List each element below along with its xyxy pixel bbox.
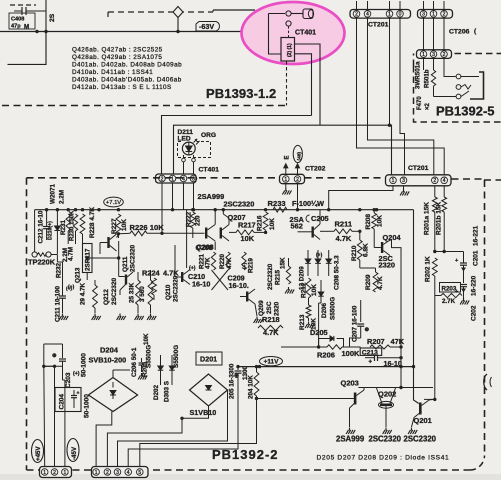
- node diamond junction: [173, 7, 183, 18]
- wire cross link: [87, 257, 119, 259]
- resistor R201a 15K: [434, 186, 436, 197]
- highlight ellipse around CT401: [242, 2, 345, 64]
- wire cross-coupling X: [212, 270, 229, 290]
- wire bridge1 bottom out: [96, 412, 112, 467]
- wire CT401 pin3 drop: [193, 183, 195, 210]
- svg-text:R205: R205: [142, 361, 149, 377]
- diode D207: [305, 259, 311, 263]
- svg-text:F470: F470: [417, 96, 423, 110]
- svg-text:CT201: CT201: [408, 165, 429, 172]
- svg-text:D210(+): D210(+): [48, 221, 54, 240]
- svg-text:1: 1: [64, 470, 67, 476]
- svg-text:Q201: Q201: [414, 416, 432, 425]
- board border PB1392-2 top right: [452, 178, 486, 180]
- wire CT201 top stubs: [356, 1, 358, 10]
- svg-text:2320: 2320: [274, 301, 281, 316]
- svg-text:W2071: W2071: [50, 184, 57, 204]
- svg-text:1: 1: [422, 52, 425, 58]
- wire supply horizontal: [44, 365, 63, 367]
- svg-text:16-220: 16-220: [471, 275, 478, 296]
- connector CT202: [280, 174, 305, 183]
- svg-text:R217: R217: [238, 221, 256, 230]
- svg-text:(+): (+): [316, 253, 323, 259]
- capacitor C202: [460, 284, 467, 286]
- svg-text:1: 1: [388, 12, 391, 18]
- svg-text:3: 3: [402, 178, 405, 184]
- svg-text:S5500G: S5500G: [330, 297, 337, 320]
- wire D210 to C211: [57, 255, 62, 281]
- wire CT201 pin2 down: [357, 18, 445, 175]
- svg-text:0: 0: [399, 12, 402, 18]
- svg-text:(+): (+): [68, 285, 75, 291]
- svg-text:SVB10-200: SVB10-200: [89, 356, 127, 365]
- wire +11V rail: [238, 366, 414, 368]
- switch S501 contact 3: [456, 94, 461, 99]
- svg-text:47K: 47K: [391, 337, 405, 346]
- svg-text:4.7M: 4.7M: [68, 247, 75, 261]
- svg-text:4: 4: [127, 470, 130, 476]
- board border PB1392-2 top mid: [305, 177, 386, 179]
- trimmer TP220K: [32, 252, 37, 257]
- svg-text:2320: 2320: [379, 261, 395, 270]
- svg-text:50-1000: 50-1000: [81, 353, 88, 377]
- wire pin5 route: [140, 399, 257, 467]
- svg-text:(+): (+): [189, 266, 196, 272]
- svg-text:2: 2: [443, 52, 446, 58]
- svg-text:Q209: Q209: [258, 300, 265, 316]
- svg-text:C208: C208: [197, 243, 214, 252]
- svg-text:⊕: ⊕: [365, 327, 370, 333]
- svg-text:Q428ab. Q429ab : 2SA1075: Q428ab. Q429ab : 2SA1075: [72, 54, 162, 61]
- wire relay feed right pin: [295, 54, 312, 116]
- svg-text:PB1393-1.2: PB1393-1.2: [206, 86, 276, 101]
- svg-text:10K: 10K: [143, 333, 150, 345]
- wire top rail right of diamond: [213, 9, 255, 11]
- ground under R229: [92, 314, 101, 321]
- diode D209 pair: [326, 259, 332, 263]
- wire switch feed: [444, 58, 456, 76]
- svg-text:-45V: -45V: [71, 446, 78, 460]
- svg-text:C202: C202: [471, 305, 478, 321]
- ground under Q202: [383, 428, 392, 435]
- svg-text:+11V: +11V: [264, 359, 279, 366]
- svg-text:R201b 15K: R201b 15K: [436, 201, 443, 235]
- svg-text:(48): (48): [296, 152, 302, 161]
- wire pin4 route: [128, 385, 238, 467]
- ground under C202: [460, 298, 469, 305]
- svg-text:16-10: 16-10: [192, 280, 210, 289]
- ground under R225: [135, 314, 144, 321]
- svg-text:TP220K: TP220K: [28, 258, 56, 267]
- svg-text:4: 4: [366, 12, 369, 18]
- svg-text:D206: D206: [321, 302, 328, 318]
- svg-text:2: 2: [161, 176, 164, 182]
- transistor Q210: [181, 272, 183, 282]
- svg-text:R220: R220: [219, 253, 226, 269]
- resistor R203 2.7K: [440, 283, 461, 293]
- svg-text:2: 2: [106, 470, 109, 476]
- svg-text:2SC2320: 2SC2320: [173, 275, 180, 302]
- svg-text:D202: D202: [153, 384, 160, 400]
- connector CT206 top: [418, 10, 453, 19]
- label +7.1V oval: [104, 197, 124, 207]
- wire pin3 route: [118, 390, 228, 467]
- svg-text:10K: 10K: [241, 234, 255, 243]
- transistor Q212: [125, 275, 127, 285]
- svg-text:-63V: -63V: [199, 22, 214, 31]
- svg-text:R218: R218: [262, 315, 280, 324]
- svg-text:D204: D204: [100, 346, 119, 355]
- svg-text:Q210: Q210: [165, 284, 172, 300]
- svg-text:6.8K: 6.8K: [363, 243, 370, 257]
- svg-text:47p: 47p: [11, 24, 21, 30]
- ground under R223: [147, 314, 156, 321]
- svg-text:D403ab. D404ab’D405ab. D406ab: D403ab. D404ab’D405ab. D406ab: [72, 77, 182, 84]
- svg-text:⊕: ⊕: [52, 353, 57, 359]
- svg-text:2: 2: [443, 12, 446, 18]
- wire relay dashed link: [286, 61, 288, 106]
- svg-text:10K: 10K: [377, 215, 384, 227]
- connector bottom left: [40, 467, 72, 478]
- svg-text:2SC2320: 2SC2320: [130, 245, 137, 272]
- label 48 oval: [293, 145, 302, 162]
- wire relay loop left: [269, 14, 286, 55]
- svg-text:2SC2320: 2SC2320: [111, 278, 118, 305]
- svg-text:R209: R209: [365, 274, 372, 290]
- relay coil box K401: [281, 38, 295, 62]
- resistor 2SR117 box: [83, 244, 93, 273]
- svg-text:3: 3: [116, 470, 119, 476]
- capacitor C201: [463, 252, 465, 264]
- wire supply top link: [43, 344, 45, 366]
- wire CT401 left feed: [162, 116, 312, 175]
- svg-text:+: +: [455, 258, 458, 264]
- wire CT201 pin1 down: [389, 18, 391, 125]
- ground under R215: [285, 287, 294, 294]
- svg-text:R219: R219: [248, 257, 255, 273]
- svg-text:2SA999: 2SA999: [198, 192, 225, 201]
- svg-text:C203: C203: [65, 372, 72, 388]
- svg-text:F-100¼W: F-100¼W: [292, 199, 324, 208]
- board border PB1392-2 left: [26, 178, 28, 470]
- svg-text:M: M: [24, 24, 29, 31]
- wire CT202 arrow 1: [285, 167, 287, 175]
- ground mid right: [138, 373, 147, 380]
- svg-text:Q211: Q211: [122, 256, 129, 272]
- ground under Q209: [255, 304, 257, 316]
- wire CT206 pin wires: [423, 18, 425, 50]
- svg-text:25 33K: 25 33K: [129, 282, 136, 303]
- svg-text:16-10.: 16-10.: [229, 281, 249, 290]
- transistor Q205 2SA562: [312, 227, 314, 238]
- wire Q211 collector: [118, 241, 120, 258]
- svg-text:2S: 2S: [49, 13, 56, 22]
- wire Q203 base: [256, 396, 258, 399]
- svg-text:2SA999: 2SA999: [336, 435, 365, 444]
- resistor R202 1K: [432, 258, 437, 276]
- board border PB1392-2 top left: [27, 177, 280, 179]
- svg-text:R208: R208: [365, 214, 372, 230]
- svg-text:Q203: Q203: [341, 379, 359, 388]
- svg-text:562: 562: [291, 222, 303, 231]
- svg-text:×2: ×2: [425, 102, 431, 110]
- svg-text:C211 10-100: C211 10-100: [55, 285, 62, 322]
- svg-text:+7.1V: +7.1V: [106, 200, 121, 206]
- svg-text:C208 50-3.3: C208 50-3.3: [334, 255, 341, 290]
- connector CT201 bottom: [386, 175, 452, 186]
- wire relay feed long horizontal: [320, 125, 392, 175]
- wire +45V drop 1: [43, 366, 46, 466]
- wire CT201 pin1 to rail: [329, 186, 393, 210]
- ground under C211: [59, 314, 68, 321]
- wire main positive rail: [35, 209, 414, 211]
- transistor Q211: [107, 237, 109, 248]
- ground under CT202 pin1: [285, 184, 287, 188]
- svg-text:4.7K: 4.7K: [377, 276, 384, 290]
- svg-text:E: E: [285, 155, 291, 159]
- svg-text:15K: 15K: [280, 257, 287, 269]
- connector CT206 board side: [417, 50, 452, 59]
- svg-text:2.2M: 2.2M: [59, 190, 66, 204]
- svg-text:D410ab. D411ab : 1SS41: D410ab. D411ab : 1SS41: [72, 69, 153, 76]
- switch S501 contact 1: [456, 74, 461, 79]
- svg-text:ORG: ORG: [201, 132, 216, 139]
- svg-text:CT201: CT201: [368, 22, 389, 29]
- diode D208: [315, 259, 321, 263]
- svg-text:2: 2: [296, 177, 299, 183]
- svg-text:R228 4.7K: R228 4.7K: [89, 207, 96, 238]
- wire CT401 second feed: [174, 125, 321, 174]
- svg-text:2SC2320: 2SC2320: [369, 435, 402, 444]
- svg-text:R202 1K: R202 1K: [425, 256, 432, 282]
- svg-text:100K: 100K: [342, 349, 361, 358]
- wire CT201 pin4 down: [368, 18, 434, 175]
- svg-text:1: 1: [432, 12, 435, 18]
- svg-text:S1VB10: S1VB10: [190, 408, 217, 417]
- svg-text:R215: R215: [275, 269, 282, 285]
- board border PB1392-2 top right exit: [484, 179, 501, 181]
- wire stub below C408: [8, 32, 47, 65]
- svg-text:+: +: [369, 360, 373, 366]
- wire CT202 pin2 down: [297, 184, 299, 210]
- svg-text:C408: C408: [11, 17, 24, 23]
- svg-text:PB1392-5: PB1392-5: [436, 104, 495, 119]
- svg-text:4: 4: [443, 178, 446, 184]
- svg-text:16-221: 16-221: [473, 225, 480, 246]
- svg-text:Q426ab. Q427ab : 2SC2525: Q426ab. Q427ab : 2SC2525: [72, 47, 163, 54]
- svg-text:Q213: Q213: [75, 267, 82, 283]
- ground under Q212: [117, 314, 126, 321]
- node LED pin a: [182, 158, 186, 162]
- svg-text:C213: C213: [362, 350, 378, 357]
- wire top-left dashed border segment: [10, 4, 36, 6]
- wire rail left drop: [34, 210, 36, 252]
- svg-text:+: +: [77, 391, 80, 397]
- connector fragment right edge: [484, 374, 487, 390]
- board border PB1392-2 right: [484, 180, 486, 455]
- svg-text:4.7K: 4.7K: [336, 234, 352, 243]
- svg-text:R501b: R501b: [424, 69, 431, 88]
- svg-text:2: 2: [355, 12, 358, 18]
- svg-text:2SC: 2SC: [266, 301, 273, 314]
- capacitor C213 16-10: [360, 348, 382, 355]
- svg-text:3WR501a: 3WR501a: [415, 61, 422, 89]
- wire contact2 stub: [288, 26, 290, 37]
- svg-text:2: 2: [433, 178, 436, 184]
- board border PB1392-5: [414, 54, 501, 123]
- svg-text:47K: 47K: [205, 257, 212, 269]
- switch S501 contact 2: [456, 85, 461, 90]
- resistor R201b 15K: [443, 186, 445, 197]
- label -63V flag: [196, 22, 219, 32]
- svg-text:+: +: [455, 289, 458, 295]
- svg-text:R224: R224: [142, 269, 161, 278]
- svg-text:3 560: 3 560: [139, 286, 146, 302]
- wire drop 3: [64, 380, 66, 467]
- transistor Q209: [246, 292, 248, 302]
- node R201 junction: [433, 250, 436, 253]
- svg-text:C201: C201: [473, 250, 480, 266]
- wire relay feed top pin: [295, 44, 321, 125]
- wire driver rail: [358, 387, 433, 389]
- svg-text:1: 1: [171, 176, 174, 182]
- rectifier S1VB10 bridge: [190, 374, 228, 406]
- svg-text:Q212: Q212: [103, 289, 110, 305]
- label +45V oval: [32, 440, 44, 463]
- wire bridge2 bottom out: [107, 406, 208, 467]
- svg-text:1: 1: [43, 470, 46, 476]
- svg-text:C206 50-1: C206 50-1: [131, 347, 138, 377]
- svg-text:2: 2: [53, 470, 56, 476]
- svg-text:D205: D205: [310, 328, 328, 337]
- svg-text:D205 D207 D208 D209 : Di: D205 D207 D208 D209 : Diode ISS41: [317, 455, 450, 462]
- svg-text:CT401: CT401: [199, 167, 220, 174]
- capacitor C204 box: [55, 388, 81, 412]
- wire CT201 pin0 down: [400, 18, 405, 175]
- ground under Q203: [346, 428, 355, 435]
- svg-text:2.7K: 2.7K: [442, 298, 456, 305]
- switch common bar: [470, 72, 484, 99]
- svg-text:CT202: CT202: [305, 166, 326, 173]
- wire CT401 pin2 drop: [161, 183, 163, 233]
- capacitor sensor cylinder: [291, 13, 303, 15]
- svg-text:(2) (1): (2) (1): [287, 43, 293, 57]
- svg-text:D401ab. D402ab. D408ab D409ab: D401ab. D402ab. D408ab D409ab: [72, 62, 182, 69]
- svg-text:R231: R231: [60, 219, 67, 235]
- wire PB1393 dashed bottom border: [2, 105, 287, 107]
- svg-text:29 4.7K: 29 4.7K: [80, 282, 87, 305]
- svg-text:2SC2320: 2SC2320: [267, 263, 274, 290]
- svg-text:10K: 10K: [311, 284, 318, 296]
- board border PB1392-2 bottom: [27, 469, 471, 471]
- svg-text:R211: R211: [335, 220, 353, 229]
- svg-text:R206: R206: [317, 350, 335, 359]
- svg-text:R207: R207: [367, 337, 385, 346]
- svg-text:+45V: +45V: [35, 446, 42, 461]
- ground under Q201: [408, 428, 417, 435]
- wire -45V drop 2: [54, 366, 56, 466]
- node LED pin b: [192, 158, 196, 162]
- node contact circle 1: [286, 11, 291, 16]
- svg-text:R201a 15K: R201a 15K: [424, 202, 431, 235]
- svg-text:10K: 10K: [269, 218, 276, 230]
- svg-text:2SC2320: 2SC2320: [224, 199, 255, 208]
- svg-text:S5500G: S5500G: [173, 345, 180, 368]
- svg-text:R233: R233: [268, 199, 286, 208]
- svg-text:D412ab. D413ab : S E L 1110S: D412ab. D413ab : S E L 1110S: [72, 84, 172, 91]
- capacitor C408: [14, 10, 46, 12]
- svg-text:R226 10K: R226 10K: [130, 223, 165, 232]
- wire R202 down to Q201: [434, 296, 436, 400]
- wire main -63V rail: [0, 31, 246, 33]
- svg-text:3: 3: [432, 52, 435, 58]
- label +11V oval: [260, 357, 283, 366]
- wire CT401 pin1 drop: [172, 183, 174, 210]
- connector CT401 bottom: [156, 174, 197, 183]
- wire CT202 arrow 2: [297, 167, 299, 175]
- wire PB1393 dashed top border: [108, 11, 213, 13]
- svg-text:CT206: CT206: [449, 29, 470, 36]
- svg-text:(+): (+): [73, 371, 80, 377]
- svg-text:5: 5: [138, 470, 141, 476]
- dashed box around LED: [178, 142, 211, 158]
- svg-text:R232: R232: [56, 262, 63, 278]
- svg-text:1: 1: [392, 178, 395, 184]
- wire CT206 top stubs: [423, 1, 425, 10]
- connector bottom right: [92, 467, 149, 478]
- svg-text:R222: R222: [186, 211, 193, 227]
- svg-text:1: 1: [284, 177, 287, 183]
- svg-text:2SR117: 2SR117: [85, 248, 92, 271]
- wire Q204 collector drop: [389, 240, 402, 348]
- wire CT401 pin4 drop: [183, 183, 185, 210]
- svg-text:205 16-3300: 205 16-3300: [229, 363, 236, 399]
- svg-text:CT401: CT401: [295, 30, 316, 37]
- node contact circle 2: [286, 21, 291, 26]
- wire bridge top feed: [112, 370, 114, 378]
- svg-text:50-1000: 50-1000: [84, 394, 91, 418]
- ground under CT201 pin3: [403, 186, 405, 189]
- label -45V oval: [67, 439, 79, 462]
- wire rail junction right: [412, 365, 415, 368]
- svg-text:1: 1: [95, 470, 98, 476]
- connector CT201 top: [350, 10, 411, 19]
- svg-text:3: 3: [422, 12, 425, 18]
- svg-text:D303 S: D303 S: [164, 381, 171, 402]
- svg-text:1300: 1300: [242, 365, 249, 380]
- svg-text:10K: 10K: [121, 219, 128, 231]
- svg-text:D201: D201: [200, 355, 217, 364]
- svg-text:2SC2320: 2SC2320: [404, 435, 437, 444]
